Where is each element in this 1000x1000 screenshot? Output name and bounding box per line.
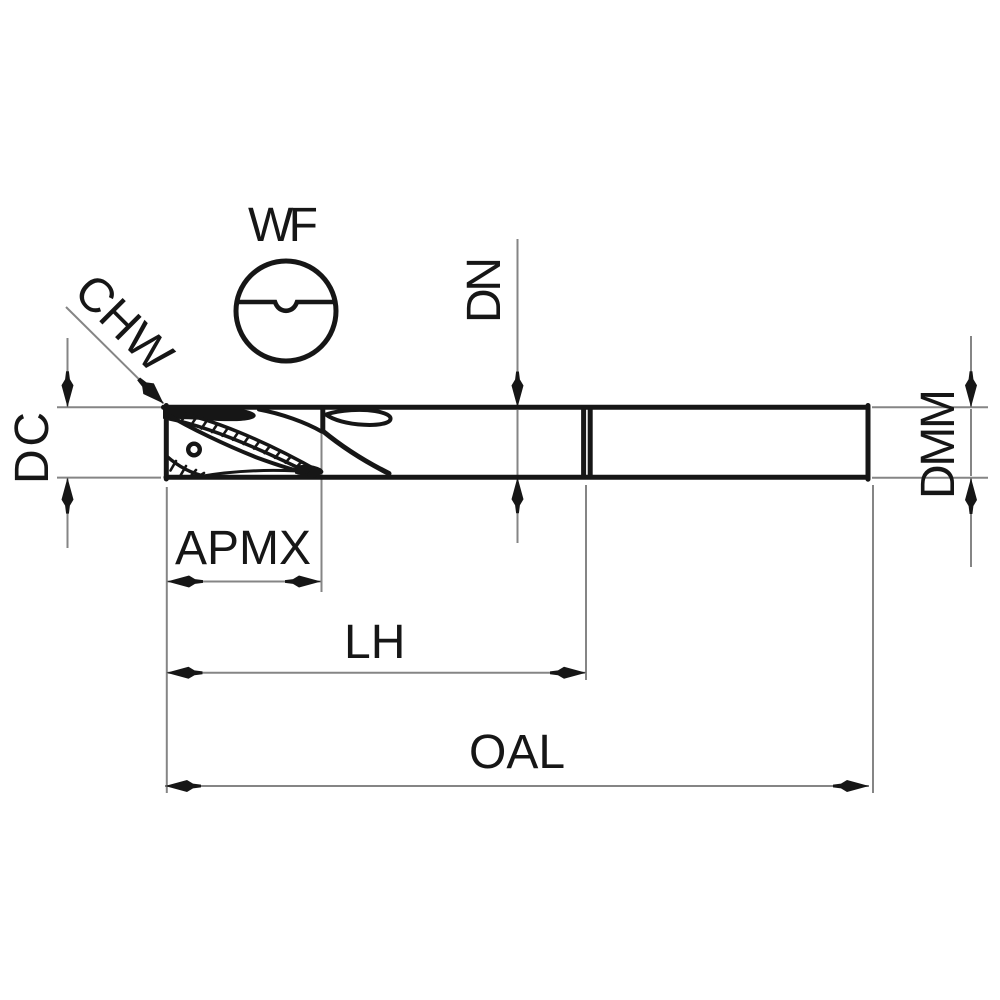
svg-text:OAL: OAL bbox=[469, 726, 565, 779]
svg-text:DC: DC bbox=[6, 412, 59, 484]
svg-text:LH: LH bbox=[344, 616, 405, 669]
svg-text:DMM: DMM bbox=[912, 389, 965, 499]
svg-text:DN: DN bbox=[458, 257, 511, 323]
svg-text:WF: WF bbox=[248, 199, 318, 252]
svg-text:APMX: APMX bbox=[175, 522, 311, 575]
